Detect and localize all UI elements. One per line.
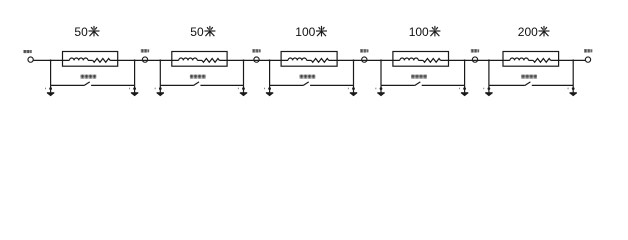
svg-text:100: 100 — [295, 25, 315, 39]
svg-text:200: 200 — [518, 25, 538, 39]
svg-text:50: 50 — [190, 25, 204, 39]
svg-text:50: 50 — [74, 25, 88, 39]
svg-text:100: 100 — [409, 25, 429, 39]
